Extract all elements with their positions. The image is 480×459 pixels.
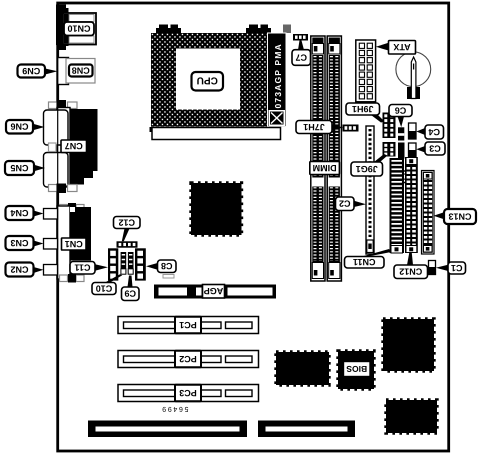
svg-text:CN7: CN7 xyxy=(65,141,83,151)
connector CN12 strip xyxy=(405,157,418,253)
jumper block right column xyxy=(135,248,146,280)
label CN6 xyxy=(6,120,33,134)
svg-text:J9H1: J9H1 xyxy=(352,104,374,114)
svg-text:ATX: ATX xyxy=(393,42,410,52)
pointer ATX xyxy=(376,43,389,51)
jumper J9G1 header xyxy=(383,142,396,157)
IC chipset U1 xyxy=(191,183,242,235)
connector CN8 body xyxy=(58,58,96,85)
svg-text:C12: C12 xyxy=(118,217,135,227)
svg-text:J9G1: J9G1 xyxy=(356,164,378,174)
svg-text:073AGP PMA: 073AGP PMA xyxy=(273,43,283,108)
svg-text:CN4: CN4 xyxy=(10,208,28,218)
svg-text:C3: C3 xyxy=(429,143,441,153)
pointer C10 xyxy=(105,274,122,282)
connector ATX power xyxy=(356,40,376,102)
DIMM2 slot xyxy=(327,36,341,281)
pointer C5 xyxy=(398,159,404,172)
IC BIOS xyxy=(338,351,374,389)
pointer C3 xyxy=(416,146,425,153)
svg-text:C1: C1 xyxy=(451,263,463,273)
connector stack bottom tab xyxy=(49,184,78,194)
svg-text:PC2: PC2 xyxy=(179,354,197,364)
svg-text:CN6: CN6 xyxy=(10,122,28,132)
connector CN1 body xyxy=(70,207,91,261)
CPU socket inner area xyxy=(176,49,240,110)
label CN7 xyxy=(61,140,87,153)
jumper C12 header xyxy=(117,241,138,247)
connector CN1 top tab xyxy=(60,203,85,212)
PCI1 slot xyxy=(118,317,259,334)
pointer CN2 xyxy=(34,267,44,273)
connector CN7 bracket strip xyxy=(57,108,70,188)
label CN11 xyxy=(345,257,385,269)
jumper block left column xyxy=(108,248,118,280)
IC I/O controller U2 xyxy=(276,352,329,385)
svg-text:C9: C9 xyxy=(124,289,136,299)
connector CN10 body xyxy=(56,5,96,51)
pointer C8 xyxy=(146,263,158,270)
connector CN13 strip xyxy=(422,171,435,255)
CPU socket PGA370 pin field xyxy=(151,33,268,127)
label CN1 xyxy=(62,238,87,250)
CPU socket corner block xyxy=(283,25,291,34)
label PCI2 xyxy=(175,351,201,368)
wire board edge over CN1 xyxy=(57,202,59,284)
IC IC U4 xyxy=(386,400,437,433)
label C4 xyxy=(425,125,444,139)
pointer C6 xyxy=(398,117,405,128)
label DIMM xyxy=(310,162,340,175)
svg-text:CN11: CN11 xyxy=(353,257,376,267)
capacitor C1 body xyxy=(429,261,436,275)
svg-text:CN9: CN9 xyxy=(22,66,40,76)
connector CN3 xyxy=(44,239,58,250)
label CN9 xyxy=(18,65,46,78)
jumper J7H1 header xyxy=(343,125,359,132)
connector stack CN6/CN5/CN7 top tab xyxy=(49,100,78,110)
capacitor C7 header xyxy=(293,34,308,41)
svg-text:PC1: PC1 xyxy=(179,320,197,330)
pointer C7 xyxy=(298,41,304,51)
pointer C9 xyxy=(128,276,133,288)
svg-text:CN1: CN1 xyxy=(65,239,83,249)
pointer CN3 xyxy=(34,241,44,247)
label BIOS xyxy=(344,362,371,377)
label J7H1 xyxy=(296,121,332,134)
connector CN1 bracket strip xyxy=(57,206,70,279)
capacitor C4 body xyxy=(409,123,417,139)
label C10 xyxy=(92,283,116,295)
svg-text:C7: C7 xyxy=(295,52,307,62)
svg-text:CN2: CN2 xyxy=(10,264,28,274)
ISA slot bar 2 xyxy=(258,421,355,438)
capacitor C3 body xyxy=(409,143,417,158)
label C6 xyxy=(389,105,412,117)
label CN8 xyxy=(69,65,93,77)
svg-text:C6: C6 xyxy=(395,105,407,115)
svg-text:C8: C8 xyxy=(161,261,173,271)
PCI3 slot xyxy=(118,385,259,402)
connector stack middle tab xyxy=(49,143,57,152)
label CN5 xyxy=(5,161,34,175)
connector CN7 parallel-port body xyxy=(70,109,98,185)
label C1 xyxy=(448,262,466,274)
jumper block middle column 2 xyxy=(128,252,134,275)
pointer C1 xyxy=(436,265,448,271)
svg-text:CN5: CN5 xyxy=(10,163,28,173)
battery xyxy=(396,52,431,99)
label CN4 xyxy=(6,206,34,220)
svg-text:AGP: AGP xyxy=(204,286,224,296)
label PCI3 xyxy=(175,385,201,402)
label C8 xyxy=(158,260,177,273)
label CN12 xyxy=(394,265,428,279)
AGP slot xyxy=(154,285,276,299)
label J9H1 xyxy=(346,103,380,115)
label CN2 xyxy=(6,263,34,277)
label PCI1 xyxy=(175,317,201,334)
label C9 xyxy=(122,287,140,301)
pointer CN9 xyxy=(45,69,58,75)
pointer CN12 xyxy=(407,253,413,265)
pointer C11 xyxy=(95,264,108,270)
svg-text:C4: C4 xyxy=(428,127,440,137)
svg-text:C11: C11 xyxy=(74,263,90,273)
pointer J7H1 xyxy=(332,124,343,130)
svg-text:PC3: PC3 xyxy=(179,388,197,398)
pointer J9G1 xyxy=(374,154,388,162)
capacitor C6 body xyxy=(398,127,404,140)
pointer C2 xyxy=(354,201,366,207)
connector CN2 xyxy=(44,265,58,276)
PCI2 slot xyxy=(118,351,259,368)
svg-text:56499: 56499 xyxy=(161,405,189,412)
connector CN6 d-sub xyxy=(44,110,69,145)
svg-text:CN12: CN12 xyxy=(399,267,422,277)
jumper J9H1 header xyxy=(383,113,396,139)
ISA slot bar 1 xyxy=(88,421,247,438)
label C3 xyxy=(425,142,445,155)
label CN3 xyxy=(6,236,34,250)
svg-text:CN10: CN10 xyxy=(67,24,90,34)
pointer C4 xyxy=(416,128,425,135)
connector CN11 strip xyxy=(390,158,405,253)
svg-text:DIMM: DIMM xyxy=(313,163,337,173)
connector CN5 d-sub xyxy=(44,153,69,188)
label CN10 xyxy=(64,22,94,36)
svg-text:C2: C2 xyxy=(339,199,351,209)
pointer J9H1 xyxy=(371,115,385,123)
svg-text:CN3: CN3 xyxy=(10,238,28,248)
jumper block middle column 1 xyxy=(121,252,127,275)
label CPU xyxy=(192,72,224,91)
capacitor C5 body xyxy=(398,143,405,159)
resistor strip C2 target xyxy=(366,126,374,254)
label AGP xyxy=(203,285,225,299)
svg-text:CN13: CN13 xyxy=(448,211,471,221)
CPU socket tab right xyxy=(246,25,271,34)
pointer CN5 xyxy=(34,165,45,171)
pointer CN6 xyxy=(33,124,45,130)
label ATX xyxy=(389,41,416,55)
connector CN4 xyxy=(44,209,58,220)
CPU socket lever icon xyxy=(269,110,286,126)
label J9G1 xyxy=(351,162,383,176)
pointer C12 xyxy=(122,229,130,242)
wire board edge over CN8 xyxy=(57,55,59,88)
CPU socket bottom bar xyxy=(150,127,281,140)
pointer CN4 xyxy=(34,211,44,217)
svg-text:BIOS: BIOS xyxy=(346,364,367,374)
label C7 xyxy=(292,50,311,66)
connector CN1 bottom tab xyxy=(60,274,85,283)
label C5 xyxy=(393,171,410,183)
CPU socket side strip AMP PGA370 xyxy=(268,33,287,127)
label C11 xyxy=(70,262,95,275)
label C12 xyxy=(114,217,141,229)
IC chipset U3 xyxy=(383,319,434,371)
svg-text:C10: C10 xyxy=(96,283,113,293)
label C2 xyxy=(336,197,355,211)
label CN13 xyxy=(444,209,476,224)
svg-text:CN8: CN8 xyxy=(72,65,90,75)
wire board edge over CN5-CN7 xyxy=(57,97,59,198)
pointer CN13 xyxy=(434,212,445,219)
svg-text:CPU: CPU xyxy=(197,75,218,86)
pointer CN11 xyxy=(362,249,391,257)
svg-text:J7H1: J7H1 xyxy=(303,122,325,132)
small part above AGP xyxy=(163,275,174,279)
CPU socket tab left xyxy=(156,25,181,34)
motherboard outline xyxy=(58,3,449,451)
DIMM1 slot xyxy=(311,36,325,281)
